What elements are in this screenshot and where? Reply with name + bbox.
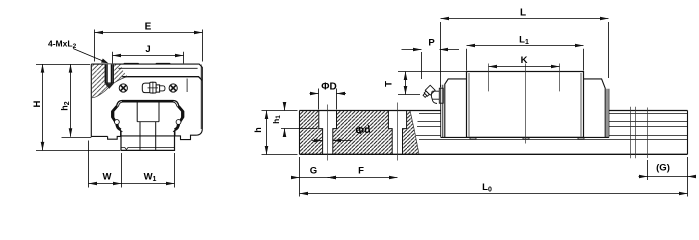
svg-text:(G): (G) (656, 163, 670, 174)
dim L (441, 8, 609, 88)
rail base (121, 131, 175, 150)
svg-text:K: K (521, 55, 528, 66)
svg-text:ΦD: ΦD (321, 82, 336, 93)
right end cap (584, 79, 606, 137)
dim L1 (467, 35, 584, 71)
dim T (384, 72, 467, 95)
svg-text:F: F (358, 166, 364, 177)
dim label 4-MxL2 with leader (48, 39, 108, 64)
dim L0 (300, 157, 688, 197)
dim G (291, 157, 337, 197)
svg-text:H: H (32, 100, 43, 107)
carriage top chamfer line (118, 67, 197, 69)
end-cap screw right (169, 84, 177, 92)
carriage block outline (91, 64, 202, 140)
dim h1 (271, 102, 318, 137)
dim phid (312, 124, 372, 143)
svg-text:L: L (520, 8, 526, 19)
rail edge lines right of section (416, 114, 688, 140)
bottom seal feet (470, 137, 584, 139)
ball left (115, 120, 120, 125)
carriage top raised pads (122, 63, 172, 64)
grease nipple (front view, centre) (142, 82, 165, 94)
grease nipple (side view) (422, 85, 444, 103)
section break boundary (410, 111, 419, 155)
right end seal plate (607, 89, 609, 138)
ball right (176, 120, 181, 125)
dim phiD (310, 82, 347, 110)
svg-text:W: W (103, 172, 112, 183)
svg-text:G: G (310, 166, 317, 177)
rail bolt hole 1 (counterbore) (319, 111, 337, 155)
carriage bottom edge (441, 136, 609, 138)
hole 1 centreline (327, 105, 329, 161)
dim F (328, 166, 398, 180)
rail/cavity arch outer contour (112, 101, 184, 136)
svg-text:P: P (428, 38, 435, 49)
thread hole 4-MxL2 (104, 64, 114, 89)
dim P (402, 38, 460, 80)
left end cap (445, 79, 467, 137)
rail break lines (631, 107, 636, 158)
end seal top edge (122, 77, 202, 81)
dim H (32, 64, 120, 150)
carriage centreline (525, 64, 527, 144)
svg-text:4-MxL2: 4-MxL2 (48, 39, 77, 51)
dim E (95, 22, 203, 62)
dim h2 (60, 64, 92, 137)
left end seal plate (441, 85, 443, 138)
rail outline (side view) (300, 111, 688, 155)
rail sectioned part hatch (299, 111, 419, 155)
hole 2 centreline (397, 103, 399, 161)
carriage body (side view) (467, 72, 584, 138)
rail bolt hole 2 (counterbore) (388, 111, 406, 155)
rail top edge (thick) (122, 100, 173, 102)
svg-text:E: E (145, 22, 152, 33)
dim W (89, 141, 122, 188)
svg-text:J: J (145, 44, 150, 55)
svg-text:Φd: Φd (355, 124, 372, 138)
broken-out section hatch (top-left corner) (92, 64, 128, 98)
dim J (113, 44, 184, 63)
dim (G) (639, 160, 697, 180)
dim W1 (122, 153, 175, 188)
dim h (253, 111, 298, 155)
rail counterbore hole (section view) (137, 102, 159, 150)
K thread hole centrelines (489, 64, 560, 92)
ball groove dark corners with balls (112, 106, 183, 130)
svg-text:h: h (253, 127, 263, 133)
dim K (489, 55, 560, 68)
end-cap screw left (119, 84, 127, 92)
svg-text:T: T (384, 81, 395, 87)
rail/cavity arch inner contour (114, 102, 182, 132)
rail hole centreline (right end) (647, 108, 649, 159)
